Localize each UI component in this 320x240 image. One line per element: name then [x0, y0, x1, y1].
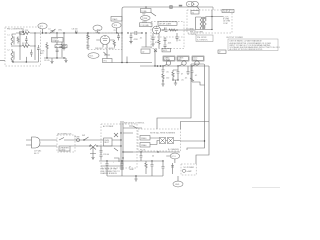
diode mark — [114, 133, 118, 137]
svg-text:NO POWER: NO POWER — [184, 167, 195, 169]
phone jack marks — [170, 6, 172, 8]
filter row wire — [99, 160, 163, 162]
coupling capacitor C10 — [130, 31, 142, 35]
transformer T2 secondary — [204, 17, 206, 29]
junction dot — [120, 132, 121, 133]
tone switch label box — [141, 9, 152, 13]
LP balloon — [170, 153, 179, 159]
junction dot — [162, 160, 163, 161]
svg-text:2ND DET - 1ST AUDIO: 2ND DET - 1ST AUDIO — [95, 47, 115, 50]
rectifier wires — [101, 139, 121, 141]
grid resistor R10 — [158, 34, 160, 48]
svg-text:C20 40: C20 40 — [103, 154, 109, 156]
junction dot — [121, 160, 122, 161]
output transformer dashed enclosure — [187, 10, 232, 33]
branch 2 wire — [173, 66, 178, 72]
label box 2 stem — [179, 61, 185, 66]
stub wire — [126, 57, 128, 63]
capacitor C12 — [164, 37, 167, 44]
tube V3 plate wire — [161, 29, 185, 31]
rectifier diode marks — [90, 145, 96, 154]
grid resistor R5 — [87, 33, 89, 45]
svg-text:J2: J2 — [219, 52, 221, 54]
svg-text:TRANS: TRANS — [52, 40, 59, 43]
junction dot — [46, 57, 47, 58]
rail capacitor — [140, 152, 143, 161]
interlock dashed enclosure — [57, 135, 75, 152]
svg-text:LP-1: LP-1 — [172, 156, 176, 158]
junction dot — [162, 29, 163, 30]
junction dot — [160, 65, 162, 67]
branch 3 out wire — [192, 82, 205, 85]
heater string label box 3 — [192, 56, 204, 61]
junction dot — [12, 61, 13, 62]
node balloon A — [38, 23, 47, 29]
branch 3 marks — [190, 77, 194, 82]
junction dot — [34, 32, 35, 33]
rectifier label box — [104, 138, 113, 146]
svg-text:60 CY: 60 CY — [34, 153, 40, 155]
plate resistor R9 — [169, 29, 176, 31]
junction dot — [157, 65, 159, 67]
svg-text:ALL RES 1/2 W 10% UNLESS NOTED: ALL RES 1/2 W 10% UNLESS NOTED — [230, 48, 263, 51]
junction dot — [26, 61, 27, 62]
svg-text:CORD: CORD — [60, 149, 66, 151]
junction dot — [87, 32, 88, 33]
junction dot — [127, 32, 128, 33]
label box 1 stem — [164, 61, 169, 66]
node balloon B — [93, 25, 102, 31]
svg-text:R1 22K: R1 22K — [22, 30, 29, 32]
page edge mark — [252, 187, 280, 189]
choke column — [171, 163, 174, 174]
svg-text:SW: SW — [82, 135, 85, 137]
left margin tie wire — [0, 60, 5, 62]
branch 2 capacitor — [177, 69, 180, 80]
svg-text:VOL: VOL — [90, 56, 94, 58]
wire break smudge — [179, 5, 182, 7]
junction dot — [145, 32, 146, 33]
twin balloon right — [191, 1, 198, 6]
capacitor C1 — [25, 36, 28, 43]
svg-text:TO GRID: TO GRID — [186, 28, 194, 30]
junction dot — [135, 175, 136, 176]
bottom balloon stem — [177, 176, 179, 181]
output power notes box — [228, 39, 278, 51]
wire vertical x20 — [19, 33, 21, 60]
svg-text:1ST AF 12AV6: 1ST AF 12AV6 — [159, 23, 171, 26]
AC plug — [26, 137, 40, 148]
heater string label box 2 — [177, 56, 189, 61]
ground — [151, 44, 154, 46]
plate feed wire — [184, 29, 196, 31]
svg-text:.05: .05 — [181, 80, 184, 82]
bottom balloon — [173, 181, 183, 187]
junction dot — [34, 45, 35, 46]
plate supply top wire — [124, 6, 213, 8]
second feed wire — [196, 66, 209, 164]
heater chain wires — [150, 138, 181, 145]
interlock out wires — [70, 140, 101, 146]
volume label box — [103, 59, 113, 63]
audio output stage dashed enclosure — [151, 22, 184, 49]
transformer T2 core — [202, 17, 205, 29]
audio stage divider dashed — [151, 36, 184, 38]
branch 3 wire — [191, 66, 193, 71]
junction dot — [211, 29, 212, 30]
branch 1 resistor — [162, 74, 164, 81]
resistor R3 — [46, 42, 48, 51]
junction dot — [151, 160, 152, 161]
socket circle 2 — [182, 61, 186, 65]
svg-text:12AV6: 12AV6 — [112, 18, 118, 21]
power supply dashed enclosure — [101, 124, 137, 168]
tone stem wire — [146, 7, 156, 16]
svg-text:12BA6: 12BA6 — [141, 144, 147, 147]
heater top feed wire — [181, 122, 210, 130]
svg-text:TONE: TONE — [142, 18, 148, 20]
volume control marks — [104, 50, 111, 59]
label box 3 stem — [193, 61, 198, 66]
cathode capacitor C9 — [87, 46, 90, 50]
junction dot — [120, 139, 121, 140]
junction dot — [122, 157, 123, 158]
svg-text:LAMP: LAMP — [187, 170, 193, 173]
junction dot — [63, 32, 64, 33]
svg-text:AC POWER: AC POWER — [103, 125, 114, 128]
primary left wires — [196, 17, 213, 30]
wire vertical x35 — [34, 33, 36, 60]
junction dot — [177, 79, 178, 80]
junction dot — [89, 145, 90, 146]
tube V2 envelope — [100, 36, 110, 45]
wire from switch — [97, 145, 101, 147]
transformer T2 primary — [200, 17, 202, 29]
branch 2 resistor — [172, 72, 174, 79]
stage label box lower — [162, 48, 171, 52]
junction dot — [176, 29, 177, 30]
coupling feed wire — [142, 33, 153, 47]
svg-text:OSC: OSC — [58, 30, 63, 32]
output section twin balloons — [186, 1, 193, 6]
resistor R4 — [61, 42, 63, 57]
capacitor C24 — [162, 161, 165, 176]
coupling capacitor C11 — [165, 28, 168, 32]
coupling marks — [154, 50, 157, 53]
resistor R1 — [22, 32, 30, 35]
junction dot — [162, 80, 163, 81]
svg-text:50C5: 50C5 — [163, 50, 168, 52]
junction dot — [56, 57, 57, 58]
pilot lamp symbol 2 — [168, 138, 174, 144]
heater label box b — [140, 143, 150, 148]
junction dot — [126, 62, 127, 63]
svg-text:20: 20 — [179, 40, 181, 42]
junction dot — [42, 32, 43, 33]
junction dot — [121, 62, 122, 63]
balloon B stem — [97, 31, 99, 33]
junction dot — [122, 151, 123, 152]
input coupling rect — [20, 31, 24, 35]
resistor R2 — [22, 45, 30, 48]
second IF label box — [55, 45, 67, 48]
wire mid row — [13, 45, 35, 47]
svg-text:CHASSIS B MINUS: CHASSIS B MINUS — [100, 172, 117, 175]
svg-text:COM: COM — [223, 23, 228, 25]
junction dot — [211, 16, 212, 17]
feed capacitor marks — [187, 66, 190, 75]
balloon A stem — [42, 29, 44, 33]
screen bus wire — [140, 65, 209, 67]
stage ground bus — [44, 51, 66, 58]
junction dot — [177, 65, 178, 66]
bias capacitor C14 — [176, 33, 179, 41]
detector stage dashed enclosure — [87, 33, 122, 50]
phone jack node — [169, 5, 172, 8]
svg-text:TP1: TP1 — [40, 26, 43, 28]
interlock switch — [59, 138, 72, 141]
antenna coil L1 — [11, 34, 16, 47]
junction dot — [145, 6, 146, 7]
electrolytic C21 — [106, 161, 109, 176]
output stage label box — [158, 22, 177, 26]
wire grid top row — [16, 32, 41, 34]
balloon C stem — [116, 28, 118, 33]
branch 1 wire — [162, 66, 164, 69]
PSU switch right — [129, 126, 137, 129]
heater feed wire — [181, 140, 206, 142]
capacitor C13 — [164, 45, 167, 48]
svg-text:SW: SW — [142, 14, 145, 16]
junction dot — [204, 140, 205, 141]
output transformer label box — [222, 10, 234, 13]
heater string label box 1 — [163, 56, 175, 61]
capacitor C3 — [37, 45, 40, 52]
AC wires to interlock — [40, 140, 57, 146]
fuse — [77, 139, 80, 142]
svg-text:OHM: OHM — [129, 169, 134, 171]
tube V2 pin wires — [96, 39, 114, 41]
svg-text:40: 40 — [152, 156, 154, 158]
right components smudge — [117, 33, 120, 40]
speaker label box — [196, 35, 213, 42]
secondary right wires — [205, 10, 223, 30]
cathode wire and cap — [152, 33, 155, 44]
svg-text:NOTE: ALL HTRS IN SERIES: NOTE: ALL HTRS IN SERIES — [150, 131, 176, 134]
field coil circle — [182, 169, 185, 172]
svg-text:TP3: TP3 — [114, 25, 117, 27]
LP stem — [166, 156, 175, 163]
PSU cross wires — [101, 128, 142, 166]
electrolytic C22 — [121, 161, 124, 176]
svg-text:B- CHASSIS: B- CHASSIS — [168, 148, 179, 151]
B plus corner wire — [212, 7, 214, 10]
svg-text:.05: .05 — [166, 72, 169, 74]
junction dot — [106, 160, 107, 161]
resistor R20 — [145, 161, 147, 174]
PSU small marks — [114, 148, 119, 162]
trimmer capacitor C4 — [50, 29, 56, 34]
svg-text:.02: .02 — [142, 51, 145, 53]
svg-text:C6 .05: C6 .05 — [44, 60, 50, 62]
B+ feed vertical wire — [122, 7, 124, 62]
filter capacitor pair — [100, 146, 103, 160]
coupling capacitor C8 — [76, 31, 78, 34]
rear jack label box — [218, 50, 226, 53]
junction dot — [76, 32, 77, 33]
pilot lamp symbol 1 — [160, 138, 166, 144]
svg-text:PRI 2500 OHM: PRI 2500 OHM — [190, 32, 203, 34]
svg-text:FUSE: FUSE — [75, 137, 81, 139]
field coil dashed box — [181, 164, 196, 175]
IF transformer T1 label box — [56, 33, 58, 38]
junction dot — [191, 65, 192, 66]
svg-text:.005: .005 — [168, 43, 172, 45]
svg-text:150: 150 — [166, 78, 169, 80]
svg-text:V OLUME: V OLUME — [140, 25, 149, 27]
tube V3 electrodes — [154, 26, 158, 34]
svg-text:SW ON VOL CONTROL: SW ON VOL CONTROL — [124, 123, 144, 125]
svg-text:L1: L1 — [8, 35, 10, 37]
junction dot — [19, 32, 20, 33]
AVC capacitor C7 — [63, 33, 66, 50]
svg-text:TONE: TONE — [141, 11, 147, 13]
oscillator coil L2 — [11, 49, 14, 62]
transformer T2 name box — [191, 11, 199, 15]
plate resistor R6 — [113, 40, 115, 47]
svg-text:470K: 470K — [134, 39, 139, 41]
svg-text:RECT: RECT — [104, 142, 110, 144]
svg-text:L2: L2 — [8, 50, 10, 52]
converter section dashed enclosure — [5, 27, 41, 66]
junction dot — [63, 57, 64, 58]
coupling label box — [141, 49, 150, 53]
junction dot — [96, 145, 97, 146]
svg-text:R2 47K: R2 47K — [22, 43, 29, 45]
tube V3 envelope — [153, 26, 161, 34]
svg-text:.01: .01 — [140, 38, 143, 40]
interlock label box — [59, 146, 70, 151]
svg-text:12BE6: 12BE6 — [141, 138, 147, 140]
svg-text:T2: T2 — [192, 12, 194, 14]
input resistor vertical — [17, 37, 19, 44]
svg-text:47: 47 — [181, 74, 183, 76]
V3 cathode to bus wire — [154, 49, 156, 67]
branch 1 capacitor — [162, 70, 165, 75]
svg-text:GND: GND — [175, 184, 180, 186]
grid leak resistor R7 — [130, 33, 133, 42]
svg-text:C8 100: C8 100 — [72, 29, 78, 31]
ground right — [64, 58, 67, 63]
junction dot — [121, 32, 122, 33]
junction dot — [157, 151, 158, 152]
socket circle 1 — [166, 61, 170, 65]
capacitor C23 — [151, 161, 154, 176]
junction dot — [45, 32, 46, 33]
wire to center — [112, 62, 152, 64]
junction dot — [56, 32, 57, 33]
PSU vertical rails — [121, 121, 123, 170]
lower marks — [90, 154, 96, 160]
power switch — [84, 137, 89, 140]
svg-text:PILOT: PILOT — [140, 150, 146, 152]
junction dot — [98, 32, 99, 33]
svg-text:.01: .01 — [195, 75, 198, 77]
heater label box a — [140, 136, 150, 141]
branch 1 ground — [161, 81, 164, 86]
branch 3 capacitor — [191, 71, 194, 77]
junction dot — [140, 151, 141, 152]
tube V2 electrodes — [103, 36, 108, 48]
main signal bus — [41, 32, 123, 34]
svg-text:OUTPUT: OUTPUT — [223, 11, 232, 13]
ground return wire — [13, 52, 39, 62]
tone balloon — [141, 16, 151, 21]
bus corner to B feed — [187, 64, 205, 150]
ground — [129, 42, 132, 44]
node C label box — [111, 17, 122, 22]
junction dot — [154, 65, 155, 66]
node balloon C — [112, 23, 121, 28]
svg-text:C4: C4 — [48, 29, 50, 31]
branch 2 ground — [173, 78, 178, 85]
twin balloon stems — [197, 6, 200, 10]
junction dot — [83, 139, 84, 140]
junction dot — [116, 32, 117, 33]
junction dot — [120, 145, 121, 146]
svg-text:3.2 OHM VC: 3.2 OHM VC — [197, 39, 208, 41]
ground — [50, 58, 53, 64]
junction dot — [19, 45, 20, 46]
volume control balloon — [88, 53, 99, 59]
B feed return wires — [157, 64, 191, 129]
junction dot — [162, 65, 163, 66]
heater chain dashed enclosure — [138, 129, 181, 151]
junction dot — [141, 32, 142, 33]
capacitor C5 — [56, 42, 59, 58]
bottom ground — [134, 176, 137, 181]
svg-text:AVC: AVC — [40, 52, 44, 55]
svg-text:VOL: VOL — [103, 61, 107, 63]
bottom return wire — [107, 175, 163, 177]
svg-text:TO SPKR: TO SPKR — [188, 34, 197, 36]
junction dot — [172, 79, 173, 80]
socket circle 3 — [195, 61, 199, 65]
capacitor C2 — [30, 50, 33, 57]
tone lower label box — [140, 23, 153, 27]
svg-text:AC INTERLOCK: AC INTERLOCK — [58, 133, 73, 136]
B plus rail — [123, 151, 180, 153]
svg-text:.05: .05 — [185, 78, 188, 80]
